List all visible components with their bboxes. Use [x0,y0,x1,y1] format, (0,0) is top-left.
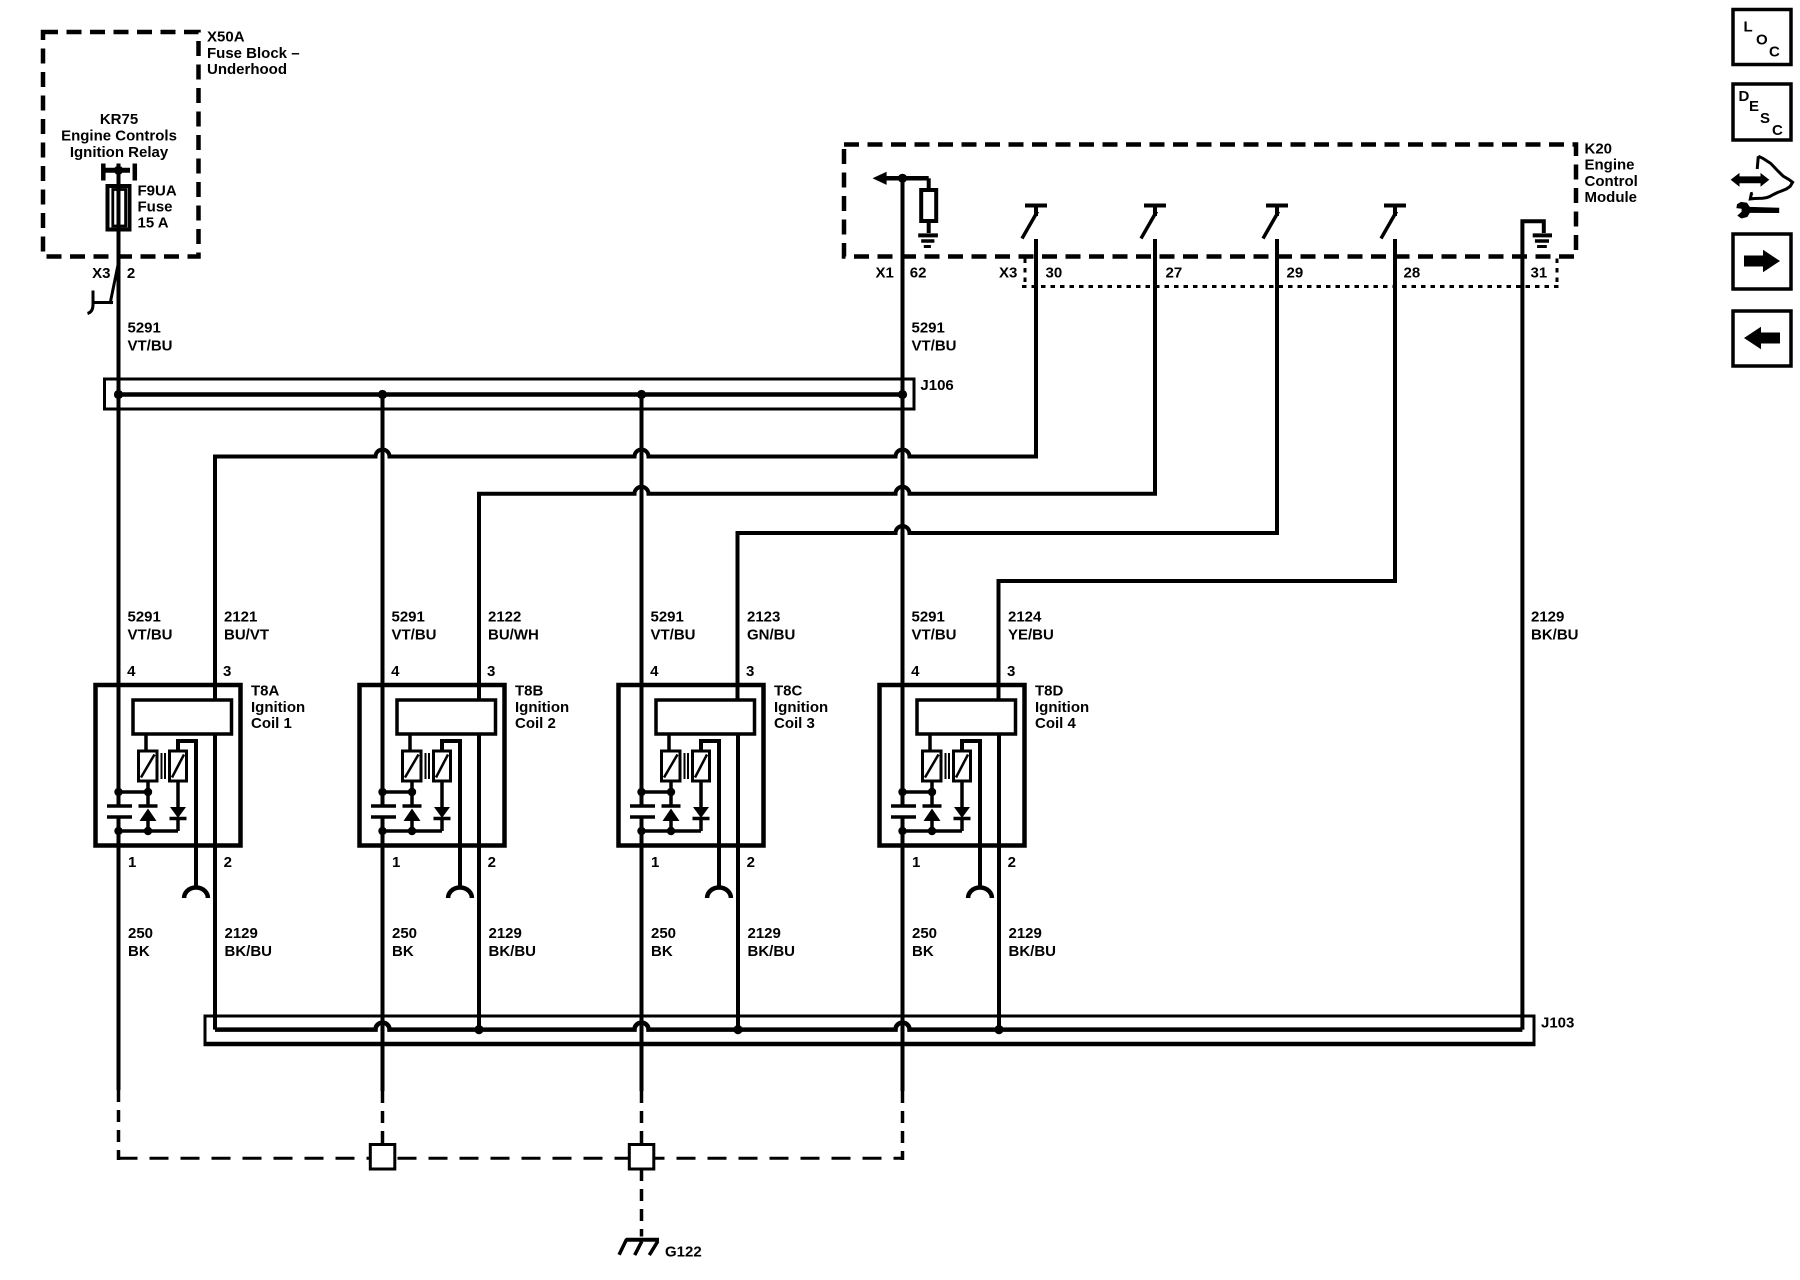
coil T8B rail dots [378,827,416,835]
coil T8B pin3 internal wire [477,734,481,846]
coil T8C rail dots [637,827,675,835]
icon pointer outline [1750,156,1792,199]
coil T8B secondary output wire [442,741,460,889]
svg-text:GN/BU: GN/BU [747,627,795,644]
svg-text:BK: BK [128,943,150,960]
label KR75 Engine Controls Ignition Relay [61,111,177,161]
coil T8A junction dots [114,788,152,796]
coil T8A pin numbers 4 3 1 2 [127,663,232,871]
capacitor in coil T8D [891,806,916,817]
dashed wire coil3 pin1 to splice S2 [640,1091,644,1146]
dashed ground rail [119,1157,903,1160]
label 2129 BK/BU at coil T8B [489,925,537,960]
svg-text:2129: 2129 [1009,925,1042,942]
svg-text:VT/BU: VT/BU [651,627,696,644]
coil T8B diode (down) with lead [434,781,451,831]
svg-text:Underhood: Underhood [207,61,287,78]
svg-text:T8B: T8B [515,683,544,700]
svg-text:62: 62 [910,265,927,282]
svg-text:5291: 5291 [912,320,945,337]
splice pack J106 housing [105,379,915,409]
coil T8A rail dots [114,827,152,835]
coil T8D junction line [903,790,933,794]
label T8B Ignition Coil 2 [515,683,569,733]
svg-text:Control: Control [1585,173,1638,190]
icon LOC box [1733,10,1791,65]
coil T8A pin3 internal wire [213,734,217,846]
wire 5291 J106 to coil2 pin4 (upper) [381,394,385,806]
ignition coil T8B box outline [360,685,505,846]
svg-text:S: S [1760,110,1770,127]
coil T8B connector body [397,700,496,734]
svg-text:Coil 1: Coil 1 [251,715,292,732]
coil T8A spark output terminal arc [184,888,208,898]
splice pack J106 bus bar [119,392,903,397]
splice pack J103 bottom edge [204,1042,1536,1047]
svg-text:C: C [1769,44,1780,61]
ECM driver switch for pin 28 [1381,206,1406,239]
svg-text:2129: 2129 [748,925,781,942]
svg-text:3: 3 [487,663,495,680]
ECM K20 dashed outline [844,145,1576,257]
svg-text:BK/BU: BK/BU [1531,627,1579,644]
coil T8D connector body [917,700,1016,734]
svg-text:2122: 2122 [488,609,521,626]
wire 250 coil3 pin1 (lower) [640,817,644,1091]
ECM driver switch for pin 30 [1022,206,1047,239]
svg-text:Engine Controls: Engine Controls [61,128,177,145]
svg-text:BK: BK [912,943,934,960]
wire 250 coil4 pin1 (lower) [901,817,905,1091]
junction on J106 at x=118.5 [114,390,123,399]
svg-text:5291: 5291 [128,320,161,337]
svg-text:BU/VT: BU/VT [224,627,269,644]
label 2129 BK/BU [1531,609,1579,644]
fuse F9UA symbol [108,186,130,230]
svg-text:X50A: X50A [207,29,245,46]
svg-text:5291: 5291 [392,609,425,626]
coil T8A secondary output wire [178,741,196,889]
svg-text:2129: 2129 [1531,609,1564,626]
coil T8A primary stub [144,734,148,751]
svg-text:Engine: Engine [1585,157,1635,174]
wire 2121 ECM pin30 to coil1 pin3 [215,239,1036,700]
svg-text:4: 4 [391,663,400,680]
junction on J106 at x=382.5 [378,390,387,399]
svg-text:5291: 5291 [912,609,945,626]
svg-text:2129: 2129 [489,925,522,942]
svg-text:BK/BU: BK/BU [489,943,537,960]
ECM driver switch for pin 29 [1263,206,1288,239]
svg-text:D: D [1739,88,1750,105]
coil T8C connector body [656,700,755,734]
capacitor in coil T8B [371,806,396,817]
coil T8D diode (down) with lead [954,781,971,831]
coil T8C pin3 internal wire [736,734,740,846]
svg-text:VT/BU: VT/BU [912,627,957,644]
svg-text:15 A: 15 A [138,215,169,232]
connector X3-2 in-line symbol [88,262,119,314]
coil T8D primary winding [923,751,942,781]
svg-text:VT/BU: VT/BU [128,627,173,644]
svg-text:1: 1 [392,854,400,871]
label 2123 GN/BU [747,609,795,644]
svg-text:2124: 2124 [1008,609,1042,626]
svg-text:O: O [1756,31,1768,48]
svg-text:C: C [1772,122,1783,139]
label F9UA Fuse 15 A [138,183,177,232]
svg-text:1: 1 [651,854,659,871]
wire 2129 coil T8C pin2 down [736,846,740,1030]
coil T8B pin numbers 4 3 1 2 [391,663,496,871]
icon next-arrow [1744,250,1780,272]
svg-text:5291: 5291 [128,609,161,626]
coil T8A core [162,753,166,779]
svg-text:2123: 2123 [747,609,780,626]
label 2121 BU/VT [224,609,269,644]
svg-text:BK: BK [651,943,673,960]
svg-text:2: 2 [747,854,755,871]
coil T8B secondary winding [434,751,451,781]
svg-text:Ignition: Ignition [251,699,305,716]
svg-text:F9UA: F9UA [138,183,177,200]
wire 250 coil1 pin1 (lower) [117,817,121,1090]
svg-text:BU/WH: BU/WH [488,627,539,644]
svg-text:3: 3 [1007,663,1015,680]
dashed wire coil2 pin1 to splice S1 [381,1091,385,1146]
coil T8C secondary output wire [701,741,719,889]
label 250 BK at coil T8B [392,925,417,960]
wire 250 coil2 pin1 (lower) [381,817,385,1091]
svg-text:VT/BU: VT/BU [392,627,437,644]
svg-text:Coil 4: Coil 4 [1035,715,1076,732]
svg-text:T8C: T8C [774,683,803,700]
svg-text:Module: Module [1585,189,1638,206]
svg-text:VT/BU: VT/BU [128,338,173,355]
ground G122 symbol [619,1239,659,1255]
svg-text:K20: K20 [1585,141,1613,158]
coil T8B diode (up) with lead [403,781,422,831]
coil T8C secondary winding [693,751,710,781]
svg-text:28: 28 [1404,265,1421,282]
coil T8A primary winding [139,751,158,781]
svg-text:X3: X3 [999,265,1017,282]
svg-text:Coil 3: Coil 3 [774,715,815,732]
label 2122 BU/WH [488,609,539,644]
coil T8C spark output terminal arc [707,887,731,898]
wire 5291 fuse to coil1 pin4 (upper) [117,164,121,807]
icon next-arrow box [1733,234,1791,289]
coil T8D core [946,753,950,779]
label 2129 BK/BU at coil T8A [225,925,273,960]
coil T8C primary winding [662,751,681,781]
label T8C Ignition Coil 3 [774,683,828,733]
icon LOC letters [1744,18,1781,60]
coil T8C junction line [642,790,672,794]
svg-text:J106: J106 [920,377,953,394]
wire 2129 coil T8B pin2 down [477,846,481,1030]
coil T8A bottom rail [119,829,179,833]
wire 5291 ECM X1-62 to coil4 pin4 (upper) [901,178,905,806]
label K20 Engine Control Module [1585,141,1638,207]
svg-text:2121: 2121 [224,609,257,626]
coil T8A junction line [119,790,149,794]
coil T8A secondary winding [170,751,187,781]
svg-text:4: 4 [911,663,920,680]
coil T8D bottom rail [903,829,963,833]
icon DESC box [1733,84,1791,140]
svg-text:27: 27 [1166,265,1183,282]
label 2129 BK/BU at coil T8C [748,925,796,960]
junction on J106 at x=641.5 [637,390,646,399]
svg-text:2: 2 [224,854,232,871]
junction on J103 at x=479 [474,1025,483,1034]
wire 2124 ECM pin28 to coil4 pin3 [999,239,1396,700]
coil T8D primary stub [928,734,932,751]
icon back-arrow [1744,327,1780,349]
label 5291 VT/BU (ECM X1-62 wire) [912,320,957,355]
wire 2129 coil T8A pin2 down [213,846,217,1030]
junction on J103 at x=738 [733,1025,742,1034]
icon wrench [1736,202,1779,219]
coil T8B junction line [383,790,413,794]
relay KR75 contact symbol [103,164,135,181]
dashed wire splice S2 to G122 [640,1169,644,1237]
coil T8C diode (down) with lead [693,781,710,831]
coil T8A diode (down) with lead [170,781,187,831]
coil T8D pin numbers 4 3 1 2 [911,663,1016,871]
svg-text:1: 1 [912,854,920,871]
splice S1 [370,1145,395,1170]
svg-text:2: 2 [488,854,496,871]
label X50A Fuse Block - Underhood [207,29,300,79]
coil T8C junction dots [637,788,675,796]
coil T8D secondary winding [954,751,971,781]
coil T8A connector body [133,700,232,734]
svg-text:BK/BU: BK/BU [1009,943,1057,960]
arrow to other circuit (inside ECM) [873,172,929,185]
label 5291 VT/BU [392,609,437,644]
label T8D Ignition Coil 4 [1035,683,1089,733]
svg-text:Ignition Relay: Ignition Relay [70,144,169,161]
svg-text:T8D: T8D [1035,683,1064,700]
coil T8B junction dots [378,788,416,796]
coil T8C pin numbers 4 3 1 2 [650,663,755,871]
signal ground (ECM internal, by resistor) [918,235,938,246]
splice S2 [629,1145,654,1170]
svg-text:250: 250 [392,925,417,942]
label 5291 VT/BU (fuse output wire) [128,320,173,355]
svg-text:X1: X1 [876,265,894,282]
junction on J103 at x=999 [994,1025,1003,1034]
wire 2129 coil T8D pin2 down [997,846,1001,1030]
svg-text:250: 250 [651,925,676,942]
svg-text:L: L [1744,18,1753,35]
svg-text:Ignition: Ignition [774,699,828,716]
icon DESC letters [1739,88,1784,139]
svg-text:3: 3 [223,663,231,680]
label 250 BK at coil T8A [128,925,153,960]
coil T8C core [685,753,689,779]
svg-text:E: E [1749,98,1759,115]
ECM internal ground at pin 31 [1522,221,1552,258]
label 5291 VT/BU [912,609,957,644]
coil T8D junction dots [898,788,936,796]
coil T8C primary stub [667,734,671,751]
svg-text:VT/BU: VT/BU [912,338,957,355]
svg-text:BK/BU: BK/BU [748,943,796,960]
svg-text:Fuse: Fuse [138,199,173,216]
svg-text:Fuse Block –: Fuse Block – [207,45,300,62]
svg-text:3: 3 [746,663,754,680]
ignition coil T8A box outline [96,685,241,846]
coil T8D pin3 internal wire [997,734,1001,846]
svg-text:BK/BU: BK/BU [225,943,273,960]
splice pack J103 bus bar [215,1023,1522,1030]
fuse block X50A dashed outline [43,32,199,257]
svg-text:250: 250 [128,925,153,942]
label 2129 BK/BU at coil T8D [1009,925,1057,960]
label 250 BK at coil T8C [651,925,676,960]
svg-text:29: 29 [1287,265,1304,282]
coil T8B bottom rail [383,829,443,833]
connector X3 dotted strip on ECM [1022,259,1560,287]
coil T8D spark output terminal arc [968,887,992,898]
capacitor in coil T8A [107,806,132,817]
junction on J106 at x=902.5 [898,390,907,399]
coil T8B spark output terminal arc [448,888,472,899]
svg-text:KR75: KR75 [100,111,138,128]
coil T8C diode (up) with lead [662,781,681,831]
svg-text:250: 250 [912,925,937,942]
svg-text:BK: BK [392,943,414,960]
svg-text:4: 4 [127,663,136,680]
svg-text:5291: 5291 [651,609,684,626]
icon double arrow [1731,173,1770,187]
wire 5291 J106 to coil3 pin4 (upper) [640,394,644,806]
svg-text:Coil 2: Coil 2 [515,715,556,732]
coil T8B core [426,753,430,779]
coil T8D diode (up) with lead [923,781,942,831]
dashed wire coil1 pin1 to splice rail [117,1090,121,1160]
coil T8A diode (up) with lead [139,781,158,831]
svg-text:2129: 2129 [225,925,258,942]
ECM driver switch for pin 27 [1141,206,1166,239]
wire 2123 ECM pin29 to coil3 pin3 [738,239,1278,700]
label X3 pin 2 of fuse block [92,265,135,282]
junction dot on X1-62 feed [898,174,907,183]
svg-text:YE/BU: YE/BU [1008,627,1054,644]
label T8A Ignition Coil 1 [251,683,305,733]
label 250 BK at coil T8D [912,925,937,960]
svg-text:2: 2 [1008,854,1016,871]
capacitor in coil T8C [630,806,655,817]
svg-text:X3: X3 [92,265,110,282]
svg-text:2: 2 [127,265,135,282]
svg-text:G122: G122 [665,1244,702,1261]
svg-text:T8A: T8A [251,683,280,700]
svg-text:Ignition: Ignition [1035,699,1089,716]
svg-text:J103: J103 [1541,1015,1574,1032]
ECM pin labels X1 62 / X3 30 27 29 28 31 [876,265,1548,282]
svg-text:30: 30 [1046,265,1063,282]
coil T8B primary winding [403,751,422,781]
resistor (ECM internal pull) [921,178,936,233]
wire 2122 ECM pin27 to coil2 pin3 [479,239,1155,700]
ignition coil T8C box outline [619,685,764,846]
splice pack J103 housing [205,1016,1534,1044]
wire 2129 ECM pin31 to J103 [1520,258,1524,1030]
svg-text:1: 1 [128,854,136,871]
label 5291 VT/BU [651,609,696,644]
icon back-arrow box [1733,311,1791,366]
coil T8D secondary output wire [962,741,980,889]
svg-text:31: 31 [1531,265,1548,282]
svg-text:Ignition: Ignition [515,699,569,716]
label 2124 YE/BU [1008,609,1054,644]
ignition coil T8D box outline [880,685,1025,846]
coil T8B primary stub [408,734,412,751]
label 5291 VT/BU [128,609,173,644]
coil T8D rail dots [898,827,936,835]
svg-text:4: 4 [650,663,659,680]
coil T8C bottom rail [642,829,702,833]
dashed wire coil4 pin1 to splice rail [901,1091,905,1160]
